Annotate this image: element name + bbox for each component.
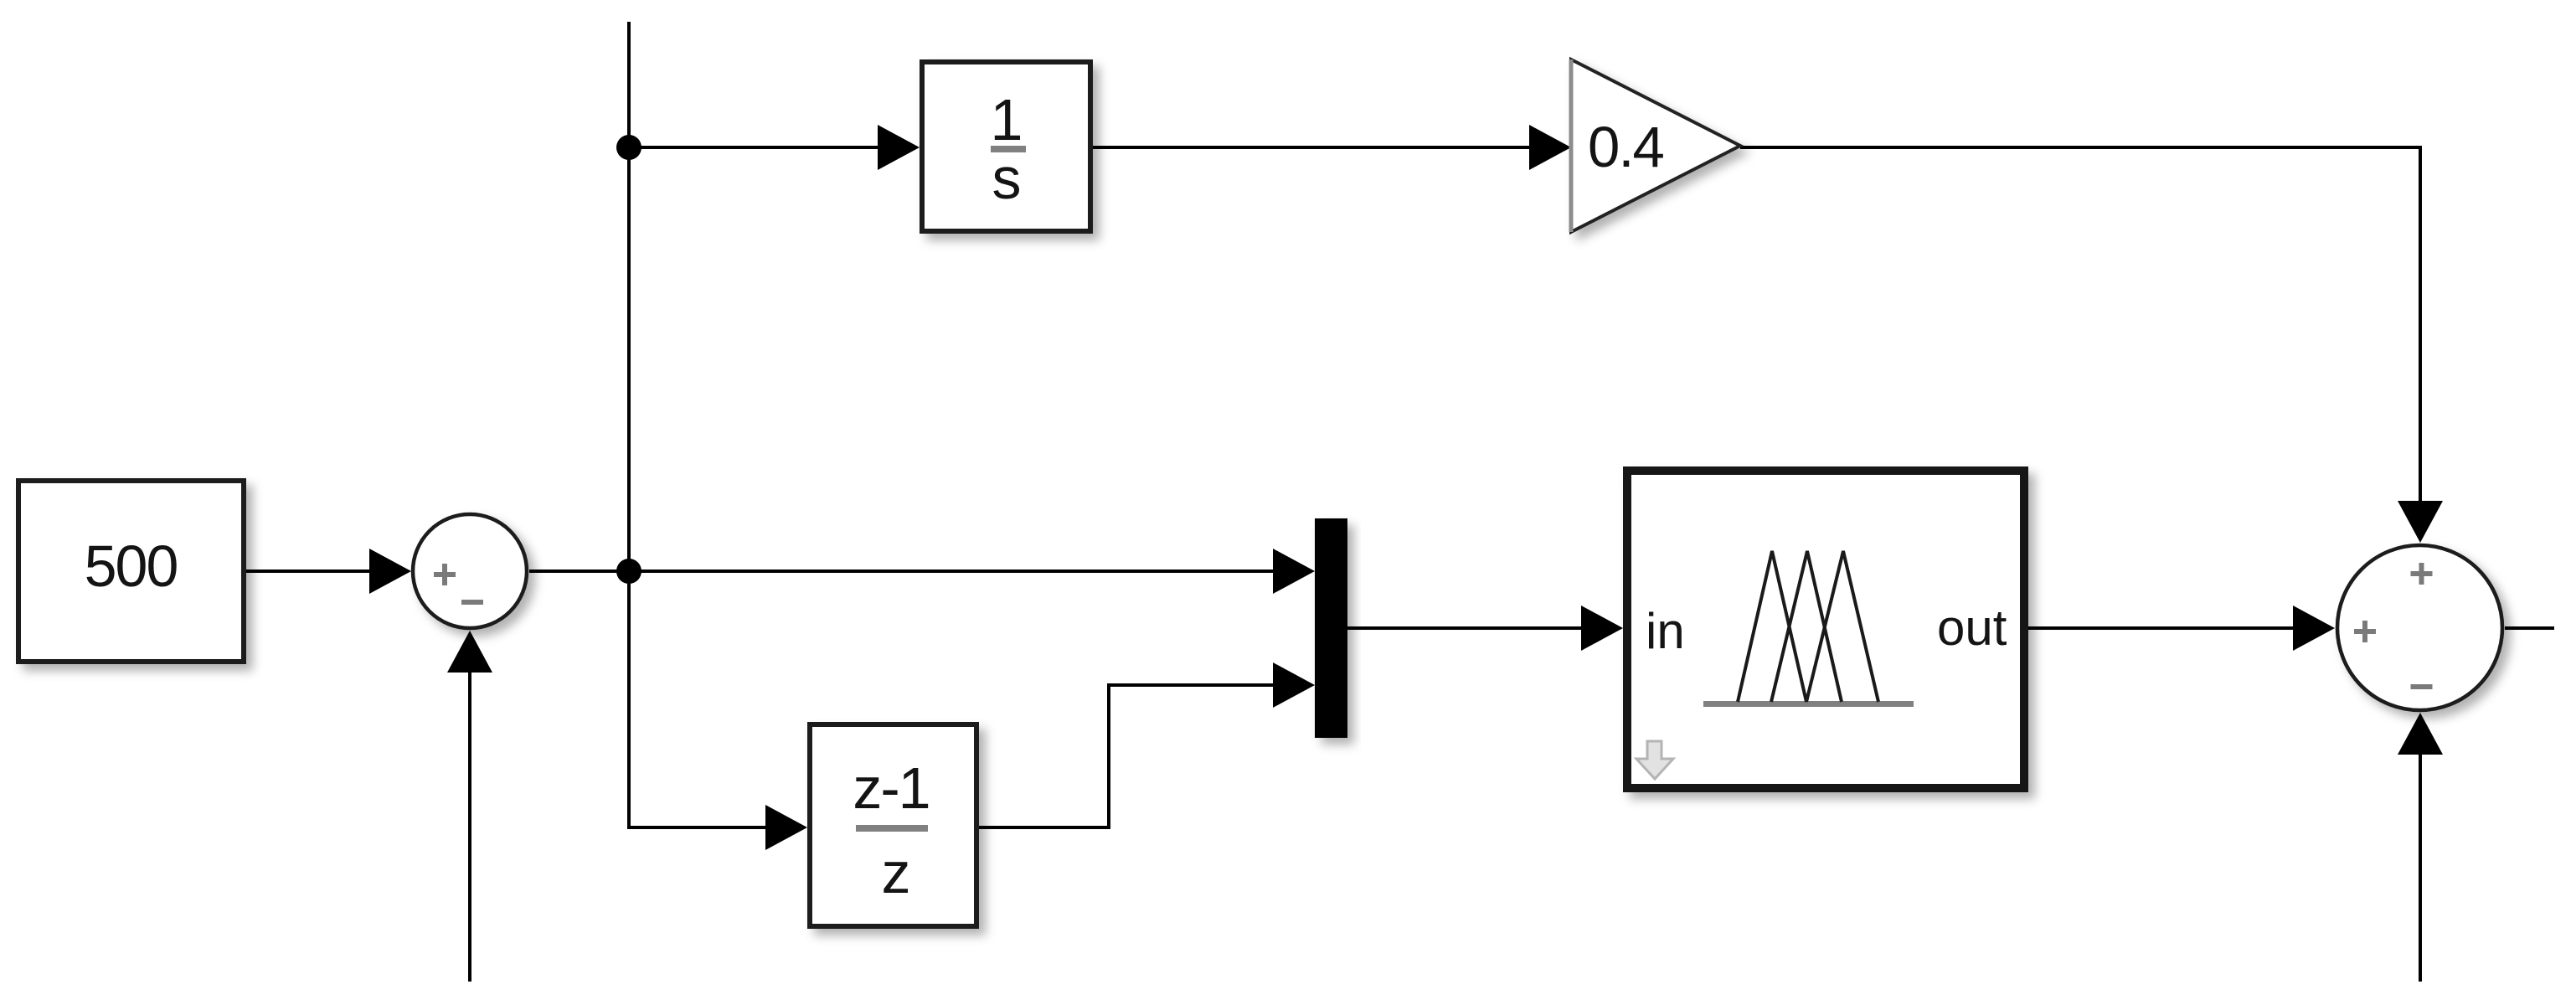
svg-text:out: out bbox=[1937, 600, 2007, 656]
svg-text:1: 1 bbox=[991, 87, 1023, 152]
svg-text:s: s bbox=[992, 146, 1022, 211]
svg-text:z: z bbox=[882, 840, 911, 905]
svg-text:z-1: z-1 bbox=[853, 755, 929, 821]
svg-text:in: in bbox=[1646, 603, 1685, 659]
svg-text:0.4: 0.4 bbox=[1588, 115, 1664, 179]
svg-text:500: 500 bbox=[85, 533, 178, 599]
